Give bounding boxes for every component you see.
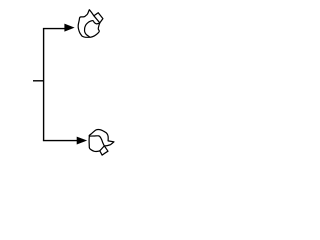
- bottom creature diamond closing edge T-L: [100, 146, 105, 151]
- bottom creature outline: body, ear, diamond: [89, 130, 114, 156]
- top creature inner curve: [85, 21, 99, 37]
- wire: root tick: [33, 80, 44, 82]
- wire: bottom branch horizontal: [43, 140, 78, 142]
- node A: top creature: [78, 10, 103, 38]
- arrowhead top: [65, 24, 74, 31]
- node B: bottom creature: [89, 130, 114, 156]
- wire: vertical trunk: [43, 29, 45, 141]
- bottom creature inner curve: [89, 136, 104, 146]
- top creature outline: body, ear, diamond: [78, 10, 103, 38]
- arrowhead bottom: [77, 137, 86, 144]
- wire: top branch horizontal: [43, 28, 65, 30]
- top creature diamond closing edge B-L: [94, 16, 100, 23]
